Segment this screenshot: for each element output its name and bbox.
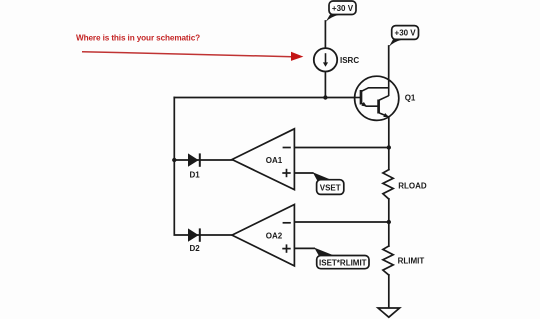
svg-text:OA1: OA1 xyxy=(266,156,283,165)
svg-text:Q1: Q1 xyxy=(405,94,416,103)
svg-text:Where is this in your schemati: Where is this in your schematic? xyxy=(76,34,200,43)
svg-text:RLIMIT: RLIMIT xyxy=(398,257,425,266)
svg-text:ISET*RLIMIT: ISET*RLIMIT xyxy=(319,258,367,267)
svg-text:+30 V: +30 V xyxy=(332,4,354,13)
svg-text:RLOAD: RLOAD xyxy=(398,182,427,191)
svg-text:VSET: VSET xyxy=(320,183,341,192)
svg-text:D2: D2 xyxy=(190,244,201,253)
svg-text:D1: D1 xyxy=(190,170,201,179)
svg-text:+30 V: +30 V xyxy=(395,29,417,38)
svg-text:OA2: OA2 xyxy=(266,232,283,241)
svg-text:ISRC: ISRC xyxy=(340,56,359,65)
